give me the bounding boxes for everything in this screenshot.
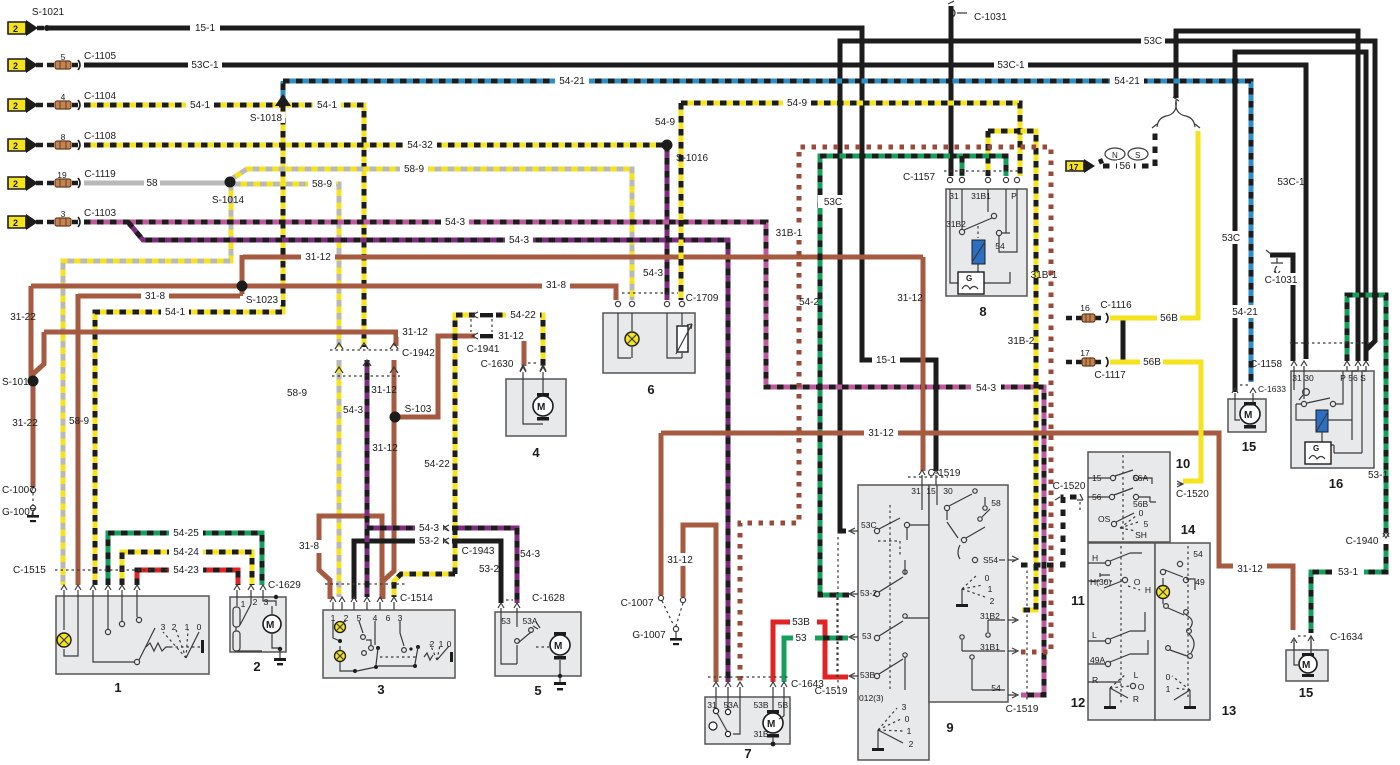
svg-text:8: 8 <box>979 304 986 319</box>
connector C-1519 dotted mid <box>837 537 839 690</box>
connector C-1117 row17 <box>1082 357 1108 367</box>
svg-text:53C-1: 53C-1 <box>191 60 219 71</box>
wire 56B yellow <box>1110 131 1201 481</box>
pins of box U8 C-1157 <box>944 170 1020 172</box>
wire C-1031 to U8 pin31 <box>949 6 954 176</box>
svg-text:30: 30 <box>1304 373 1314 383</box>
svg-text:53C: 53C <box>861 520 877 530</box>
svg-text:1: 1 <box>114 680 121 695</box>
svg-text:N: N <box>1112 151 1118 160</box>
connector C-1514 dotted line <box>325 583 405 585</box>
svg-text:3: 3 <box>161 622 166 632</box>
svg-text:0: 0 <box>905 714 910 724</box>
ground G-1007 left <box>27 487 39 522</box>
wire 31-12 long low <box>661 433 1293 630</box>
wire 54-25 green <box>108 533 262 585</box>
svg-text:R: R <box>1092 675 1098 685</box>
svg-text:53: 53 <box>501 616 511 626</box>
svg-text:56B: 56B <box>1143 357 1161 368</box>
svg-text:13: 13 <box>1222 703 1236 718</box>
wire 54-21 blue <box>283 81 1251 382</box>
svg-text:C-1630: C-1630 <box>481 359 514 370</box>
svg-text:31-8: 31-8 <box>145 291 165 302</box>
svg-text:31B1: 31B1 <box>971 191 991 201</box>
svg-text:19: 19 <box>57 170 67 180</box>
svg-text:L: L <box>1134 670 1139 680</box>
svg-text:53C: 53C <box>1144 36 1162 47</box>
pins of box U9 right chevrons <box>1012 556 1018 698</box>
svg-text:M: M <box>1302 660 1310 671</box>
svg-text:4: 4 <box>373 613 378 623</box>
svg-text:31: 31 <box>911 486 921 496</box>
svg-text:54-1: 54-1 <box>317 100 337 111</box>
svg-text:2: 2 <box>430 639 435 649</box>
wire 54-3 pink long <box>84 222 1044 695</box>
svg-text:H: H <box>1145 585 1151 595</box>
svg-text:53B: 53B <box>860 670 875 680</box>
svg-text:58-9: 58-9 <box>404 164 424 175</box>
wire 31-22 to C-1007 <box>31 381 36 487</box>
svg-text:C-1941: C-1941 <box>467 344 500 355</box>
svg-text:31: 31 <box>949 191 959 201</box>
svg-text:54-3: 54-3 <box>976 383 996 394</box>
svg-text:31-12: 31-12 <box>667 555 693 566</box>
svg-text:0: 0 <box>447 639 452 649</box>
svg-text:C-1520: C-1520 <box>1053 481 1086 492</box>
svg-text:M: M <box>554 641 562 652</box>
compass N S <box>1105 148 1125 160</box>
svg-text:53A: 53A <box>522 616 537 626</box>
svg-text:OS: OS <box>1098 514 1111 524</box>
svg-text:2: 2 <box>253 597 258 607</box>
svg-text:3: 3 <box>264 597 269 607</box>
pins of box U4 <box>520 367 546 372</box>
svg-text:C-1116: C-1116 <box>1100 300 1132 311</box>
svg-text:56A: 56A <box>1133 473 1148 483</box>
svg-text:12: 12 <box>1071 695 1085 710</box>
svg-text:31-12: 31-12 <box>372 443 398 454</box>
svg-text:9: 9 <box>946 720 953 735</box>
svg-text:0: 0 <box>1139 508 1144 518</box>
svg-text:012(3): 012(3) <box>859 693 884 703</box>
svg-text:53B: 53B <box>753 700 768 710</box>
svg-text:0: 0 <box>197 622 202 632</box>
wire 53C top <box>840 41 1375 531</box>
svg-text:S-103: S-103 <box>405 404 432 415</box>
svg-text:1: 1 <box>331 613 336 623</box>
svg-text:16: 16 <box>1080 303 1090 313</box>
svg-text:S-1014: S-1014 <box>212 195 245 206</box>
svg-text:53B: 53B <box>792 617 810 628</box>
svg-text:O: O <box>1134 577 1141 587</box>
svg-text:49: 49 <box>1195 577 1205 587</box>
labels: mid section <box>287 12 1388 715</box>
svg-text:54-23: 54-23 <box>173 565 199 576</box>
svg-text:31-12: 31-12 <box>305 252 331 263</box>
svg-text:54-3: 54-3 <box>445 217 465 228</box>
svg-text:C-1031: C-1031 <box>1265 275 1298 286</box>
svg-text:54-22: 54-22 <box>424 459 450 470</box>
svg-text:1: 1 <box>907 726 912 736</box>
svg-text:30: 30 <box>943 486 953 496</box>
wire box15a to box16 S <box>1235 52 1366 392</box>
svg-text:C-1940: C-1940 <box>1346 536 1379 547</box>
svg-text:3: 3 <box>377 682 384 697</box>
wire 31-8 to U6 <box>31 286 616 379</box>
svg-text:G: G <box>966 274 972 283</box>
pins of box U6 C-1709 <box>622 292 678 294</box>
box U9 wiper switch <box>858 485 1008 760</box>
pins of box U2 C-1629 <box>234 585 266 590</box>
svg-text:2: 2 <box>990 596 995 606</box>
box U3 lighting switch <box>323 610 455 678</box>
box U2 blower resistor/motor <box>230 595 286 666</box>
svg-text:L: L <box>1092 630 1097 640</box>
splice S-1018 <box>275 94 291 106</box>
svg-text:G: G <box>1313 444 1319 453</box>
wire 54-32 <box>84 143 667 148</box>
svg-text:53-2: 53-2 <box>479 564 499 575</box>
svg-text:C-1633: C-1633 <box>1258 384 1286 394</box>
wire S54 dashed black <box>1021 497 1077 565</box>
svg-text:31-12: 31-12 <box>1237 564 1263 575</box>
svg-text:C-1007: C-1007 <box>621 598 654 609</box>
connector C-1940 <box>1383 532 1389 538</box>
svg-text:54-3: 54-3 <box>520 549 540 560</box>
fuse arrow 17 <box>1066 159 1095 173</box>
svg-text:5: 5 <box>534 683 541 698</box>
svg-text:11: 11 <box>1071 593 1085 608</box>
svg-text:54-3: 54-3 <box>419 523 439 534</box>
box U5 wiper motor <box>495 612 581 690</box>
svg-text:C-1629: C-1629 <box>268 580 301 591</box>
svg-text:54-9: 54-9 <box>655 117 675 128</box>
fuse arrow row5 <box>8 175 38 191</box>
svg-text:54: 54 <box>991 683 1001 693</box>
svg-text:O: O <box>1138 682 1145 692</box>
connector C-1633 pins U15a <box>1240 384 1249 386</box>
svg-text:54-25: 54-25 <box>173 528 199 539</box>
wire 31B-1 brown dotted loop <box>740 147 1051 682</box>
svg-text:53C-1: 53C-1 <box>1277 177 1305 188</box>
svg-text:31B-1: 31B-1 <box>1031 270 1058 281</box>
svg-text:G-1007: G-1007 <box>2 507 36 518</box>
svg-text:S: S <box>1360 373 1366 383</box>
ground G-1007 mid <box>658 595 685 645</box>
wire 31-12 mid row <box>33 332 396 417</box>
svg-text:5: 5 <box>357 613 362 623</box>
wire 58-9 left branch to box1 <box>63 184 231 585</box>
inline connector row2 <box>55 60 80 70</box>
svg-text:31: 31 <box>707 700 717 710</box>
splice S-1021 <box>44 25 50 31</box>
wire 54-22 loop <box>394 315 543 597</box>
wire 54-3 purple to U7 <box>128 222 728 682</box>
svg-text:53-2: 53-2 <box>860 588 877 598</box>
svg-text:49A: 49A <box>1090 655 1105 665</box>
svg-text:2: 2 <box>172 622 177 632</box>
svg-text:C-1105: C-1105 <box>84 51 116 62</box>
wire 54-1 branch to box1 <box>95 105 283 585</box>
wire 58-9 mid branch to C-1942/box3 <box>234 184 339 597</box>
svg-text:C-1515: C-1515 <box>13 565 46 576</box>
connector C-1943 marks <box>443 525 449 544</box>
svg-text:54-9: 54-9 <box>787 98 807 109</box>
svg-text:S-1011: S-1011 <box>2 377 34 388</box>
svg-text:54-24: 54-24 <box>173 547 199 558</box>
pins of box U3 C-1514 <box>330 597 397 602</box>
svg-text:15: 15 <box>1299 685 1313 700</box>
svg-text:C-1628: C-1628 <box>532 593 565 604</box>
svg-text:53: 53 <box>795 633 807 644</box>
svg-text:54-22: 54-22 <box>510 310 536 321</box>
svg-text:2: 2 <box>253 659 260 674</box>
svg-text:C-1709: C-1709 <box>686 293 719 304</box>
wire 58 gray <box>84 181 228 186</box>
wire row2 lead dashes <box>36 63 78 68</box>
svg-text:16: 16 <box>1329 476 1343 491</box>
svg-text:31-8: 31-8 <box>546 280 566 291</box>
wire 56B link black <box>1121 316 1126 362</box>
box U4 washer pump <box>506 379 566 436</box>
svg-text:4: 4 <box>61 92 66 102</box>
wire 56 dashed to brace <box>1103 130 1155 166</box>
wire 53C-1 row2 <box>84 65 1306 359</box>
svg-text:S-1018: S-1018 <box>250 113 283 124</box>
connector C-1630 <box>528 362 538 364</box>
svg-text:15: 15 <box>926 486 936 496</box>
svg-text:6: 6 <box>647 382 654 397</box>
pins of box U1 <box>61 585 140 590</box>
wire 54-1 <box>84 105 364 347</box>
svg-text:1: 1 <box>988 584 993 594</box>
svg-text:3: 3 <box>398 613 403 623</box>
svg-text:56B: 56B <box>1160 313 1178 324</box>
svg-text:C-1643: C-1643 <box>791 679 824 690</box>
wire 53-2 black U3 to U5 <box>354 541 501 603</box>
svg-text:15: 15 <box>1092 473 1102 483</box>
labels: bold box numbers <box>114 304 1343 761</box>
svg-text:54-21: 54-21 <box>1232 307 1258 318</box>
svg-text:54-2: 54-2 <box>799 297 819 308</box>
svg-text:C-1031: C-1031 <box>974 12 1007 23</box>
svg-text:58-9: 58-9 <box>312 179 332 190</box>
svg-text:C-1514: C-1514 <box>400 593 433 604</box>
wire 31-12 to U7 pin31 <box>683 525 716 682</box>
svg-text:31-22: 31-22 <box>10 312 36 323</box>
wire 58-9 upper branch <box>230 169 632 300</box>
wire C-1117 row lead <box>1066 360 1104 365</box>
svg-text:1: 1 <box>241 599 246 609</box>
svg-text:31-12: 31-12 <box>498 331 524 342</box>
svg-text:5: 5 <box>61 52 66 62</box>
svg-text:1: 1 <box>185 622 190 632</box>
svg-text:S-1016: S-1016 <box>676 153 709 164</box>
wire 53B red U7 to U9 <box>773 622 848 682</box>
svg-text:31: 31 <box>1292 373 1302 383</box>
connector C-1158 dotted <box>1290 342 1370 344</box>
svg-text:31-12: 31-12 <box>371 385 397 396</box>
svg-text:53C: 53C <box>1222 233 1240 244</box>
splice S-1011 <box>28 376 39 387</box>
svg-text:3: 3 <box>61 209 66 219</box>
svg-text:54: 54 <box>995 241 1005 251</box>
svg-text:53A: 53A <box>723 700 738 710</box>
box U15b washer pump <box>1286 637 1328 681</box>
wire 53-1 green from U16 P <box>1311 295 1386 633</box>
wire 54-3 from S-1016 to U6 <box>665 145 670 300</box>
connector C-1520 black dash vert <box>1079 502 1081 510</box>
pins of box U9 top C-1519 <box>908 476 948 478</box>
wire 31B-2 yellow loop from U8 <box>988 131 1036 610</box>
svg-text:10: 10 <box>1176 456 1190 471</box>
wire 15-1 row1 <box>47 28 936 471</box>
wire 54-2 green from U8 <box>820 156 1006 595</box>
svg-text:R: R <box>1133 694 1139 704</box>
brace split <box>1157 100 1195 127</box>
svg-text:56: 56 <box>1119 161 1131 172</box>
svg-text:1: 1 <box>439 639 444 649</box>
svg-text:54-3: 54-3 <box>343 405 363 416</box>
svg-text:C-1157: C-1157 <box>903 172 935 183</box>
svg-text:31-8: 31-8 <box>299 541 319 552</box>
svg-text:3: 3 <box>902 702 907 712</box>
connector C-1941 marks <box>472 312 478 339</box>
splice S-1016 <box>662 140 673 151</box>
svg-text:58: 58 <box>991 498 1001 508</box>
connector C-1942 <box>330 350 400 376</box>
svg-text:54: 54 <box>1193 549 1203 559</box>
svg-text:7: 7 <box>744 746 751 761</box>
svg-text:H(30): H(30) <box>1090 577 1111 587</box>
svg-text:54-32: 54-32 <box>407 140 433 151</box>
svg-text:31B2: 31B2 <box>980 611 1000 621</box>
svg-text:5: 5 <box>1144 519 1149 529</box>
svg-text:2: 2 <box>13 24 18 34</box>
svg-text:14: 14 <box>1181 522 1196 537</box>
svg-text:54-1: 54-1 <box>190 100 210 111</box>
wire 54-3 purple C-1942 to U3 pin4 and U5 <box>367 360 517 603</box>
wire 53 green U7 to U9 <box>784 638 848 682</box>
svg-text:S-1023: S-1023 <box>246 295 279 306</box>
svg-text:31B2: 31B2 <box>946 219 966 229</box>
wire 31-12 long top <box>242 255 923 471</box>
svg-text:8: 8 <box>61 132 66 142</box>
connector C-1031 right <box>1266 250 1283 275</box>
svg-text:M: M <box>266 620 274 631</box>
inline connector row4 <box>55 140 80 150</box>
wire brace net top-right <box>1176 31 1358 361</box>
fuse arrow row3 <box>8 97 38 113</box>
svg-text:C-1158: C-1158 <box>1250 359 1282 370</box>
splice S-1023 <box>237 281 248 292</box>
svg-text:C-1119: C-1119 <box>84 169 116 180</box>
svg-text:58-9: 58-9 <box>287 388 307 399</box>
svg-text:S: S <box>1135 151 1140 160</box>
svg-text:15-1: 15-1 <box>195 23 215 34</box>
splice S-103 <box>390 412 401 423</box>
box U7 rear wiper motor <box>705 697 790 746</box>
svg-text:C-1117: C-1117 <box>1094 370 1126 381</box>
pins of box U7 C-1643 <box>708 676 788 678</box>
connector C-1634 pins U15b <box>1298 635 1308 637</box>
box U10 switch <box>1088 452 1170 542</box>
svg-text:15-1: 15-1 <box>876 355 896 366</box>
connector C-1515 dotted line <box>55 569 205 571</box>
svg-text:31-12: 31-12 <box>897 293 923 304</box>
box U16 relay <box>1291 371 1374 468</box>
svg-text:58-9: 58-9 <box>69 416 89 427</box>
inline connector row3 <box>55 100 80 110</box>
box U11-12 column switch <box>1088 543 1155 720</box>
box U15a heater blower motor <box>1228 399 1266 432</box>
svg-text:C-1520: C-1520 <box>1176 489 1209 500</box>
svg-text:2: 2 <box>909 739 914 749</box>
svg-text:31B-2: 31B-2 <box>1008 336 1035 347</box>
svg-text:58: 58 <box>146 178 158 189</box>
svg-text:4: 4 <box>532 445 540 460</box>
wire fuse17 lead <box>1100 159 1103 166</box>
svg-text:0: 0 <box>985 573 990 583</box>
svg-text:53-2: 53-2 <box>419 536 439 547</box>
box U6 instrument illumination <box>603 313 695 373</box>
svg-text:54-3: 54-3 <box>509 235 529 246</box>
fuse arrow row2 <box>8 57 38 73</box>
wire 31-12 S-103 down to U3 pin6 <box>383 417 394 599</box>
pins of box U16 <box>1291 361 1369 366</box>
wire C-1116 row lead <box>1066 316 1104 321</box>
box U13-14 switch w lamp <box>1155 543 1210 720</box>
svg-text:15: 15 <box>1242 439 1256 454</box>
svg-text:5B: 5B <box>778 700 789 710</box>
pins of box U9 left chevrons <box>849 528 855 679</box>
connector C-1520 right chevron <box>1055 497 1060 500</box>
svg-text:17: 17 <box>1069 162 1079 172</box>
wire 54-9 yellow <box>681 103 1020 300</box>
svg-text:P: P <box>1011 191 1017 201</box>
svg-text:53C: 53C <box>824 197 842 208</box>
svg-text:53-1: 53-1 <box>1338 567 1358 578</box>
inline connector row6 <box>55 217 80 227</box>
svg-text:M: M <box>1244 410 1252 421</box>
svg-text:56: 56 <box>1092 492 1102 502</box>
wire 54-23 red <box>137 570 238 585</box>
svg-text:53: 53 <box>862 631 872 641</box>
svg-text:31B1: 31B1 <box>980 642 1000 652</box>
inline connector row5 <box>55 178 80 188</box>
svg-text:6: 6 <box>386 613 391 623</box>
wire C-1031b to U16 pin31 <box>1270 255 1293 361</box>
labels: box pin texts <box>161 373 1367 749</box>
labels: splices and rows <box>2 7 709 591</box>
svg-text:31-22: 31-22 <box>12 418 38 429</box>
box U8 relay <box>946 189 1027 296</box>
svg-text:P: P <box>1340 373 1346 383</box>
fuse arrow row4 <box>8 137 38 153</box>
svg-text:31B-1: 31B-1 <box>776 228 803 239</box>
svg-text:S54: S54 <box>983 555 998 565</box>
svg-text:54-21: 54-21 <box>1114 76 1140 87</box>
wire 54-24 yellow <box>122 552 252 585</box>
svg-text:1: 1 <box>1166 684 1171 694</box>
svg-text:C-1943: C-1943 <box>462 546 495 557</box>
svg-text:C-1007: C-1007 <box>2 485 35 496</box>
svg-text:31-12: 31-12 <box>402 327 428 338</box>
svg-text:H: H <box>1092 553 1098 563</box>
svg-text:C-1519: C-1519 <box>928 468 961 479</box>
svg-text:54-1: 54-1 <box>165 307 185 318</box>
svg-text:C-1103: C-1103 <box>84 208 116 219</box>
